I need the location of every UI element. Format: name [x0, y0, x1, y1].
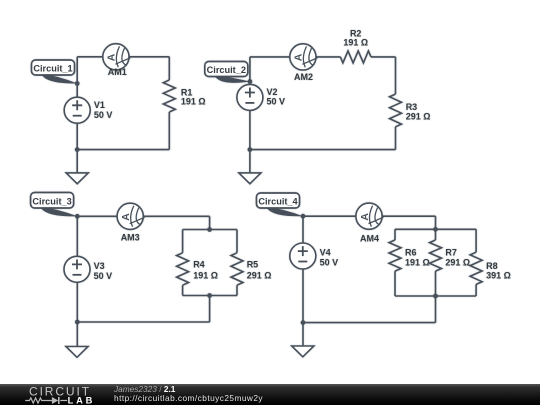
CircuitLab logo waveform [25, 398, 67, 403]
svg-text:LAB: LAB [68, 396, 96, 405]
footer bar [0, 384, 540, 405]
svg-text:http://circuitlab.com/cbtuyc25: http://circuitlab.com/cbtuyc25muw2y [114, 393, 263, 403]
